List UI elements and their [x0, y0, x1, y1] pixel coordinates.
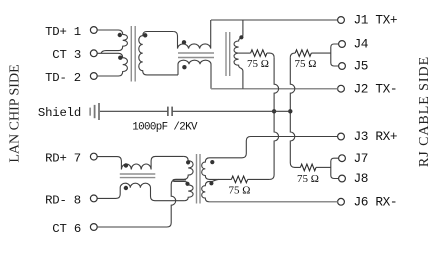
polarity dot L2 top winding — [124, 163, 128, 167]
choke L2 core line 2 — [120, 177, 156, 179]
transformer T1 secondary winding — [139, 32, 178, 75]
svg-text:J5: J5 — [354, 59, 369, 74]
polarity dot L1 bottom winding — [182, 65, 186, 69]
choke L2 bottom winding (RD- to T3) — [97, 183, 184, 201]
svg-text:RD+ 7: RD+ 7 — [45, 152, 81, 166]
svg-text:J3 RX+: J3 RX+ — [354, 129, 398, 144]
wire J1 TX+ rail — [211, 19, 338, 21]
terminal circle pin 2 (TD-) — [90, 73, 97, 80]
resistor R3 75ohm zigzag — [231, 176, 247, 183]
transformer T1 primary winding W2 (CT to TD-) — [97, 53, 127, 76]
choke L1 core line 2 — [178, 57, 214, 59]
wire R3 to vertical A — [248, 178, 270, 180]
transformer T3 primary winding W2 — [173, 181, 193, 201]
svg-text:J4: J4 — [354, 37, 369, 52]
svg-text:75 Ω: 75 Ω — [247, 58, 269, 70]
terminal circle pin 8 (RD-) — [90, 195, 97, 202]
terminal circle J1 — [338, 17, 345, 24]
transformer T3 secondary winding W2 — [202, 179, 219, 201]
wire shield rail right — [173, 110, 290, 112]
polarity dot T1 secondary — [143, 33, 147, 37]
svg-text:J8: J8 — [354, 171, 369, 186]
resistor R4 75ohm zigzag — [300, 164, 316, 171]
svg-text:RD- 8: RD- 8 — [45, 193, 81, 207]
svg-text:CT 3: CT 3 — [52, 48, 81, 62]
wire T2 center tap — [239, 52, 251, 54]
wire R1 to vertical — [267, 53, 274, 58]
junction dot vertical A on shield rail — [272, 109, 276, 113]
wire R4 to bracket — [316, 166, 331, 168]
terminal circle J5 — [339, 63, 346, 70]
terminal circle pin 1 (TD+) — [90, 27, 97, 34]
wire J4/J5 bracket — [331, 44, 339, 66]
terminal circle J6 — [338, 198, 345, 205]
transformer T1 primary winding W1 (TD+ to CT) — [97, 30, 127, 53]
terminal circle J4 — [339, 41, 346, 48]
wire J7/J8 bracket — [331, 158, 339, 178]
transformer T3 primary winding W1 — [173, 156, 193, 180]
junction dot vertical B on shield rail — [288, 109, 292, 113]
terminal circle J8 — [339, 175, 346, 182]
svg-text:RJ CABLE SIDE: RJ CABLE SIDE — [417, 56, 432, 167]
svg-text:1000pF /2KV: 1000pF /2KV — [132, 122, 198, 134]
polarity dot T1 primary W2 — [118, 56, 122, 60]
polarity dot T3 primary W1 — [186, 160, 190, 164]
capacitor C1 plate 2 — [171, 107, 173, 116]
choke L2 top winding (RD+ to T3) — [97, 156, 183, 169]
svg-text:CT 6: CT 6 — [52, 222, 81, 236]
terminal circle J7 — [339, 155, 346, 162]
terminal circle pin 6 (CT) — [90, 224, 97, 231]
autotransformer T2 core line 1 — [225, 32, 227, 76]
svg-text:J2 TX-: J2 TX- — [354, 81, 398, 96]
resistor R1 75ohm zigzag — [251, 50, 267, 57]
wire T3 center tap to CT 6 (hop over RD- line) — [97, 180, 186, 227]
svg-text:75 Ω: 75 Ω — [295, 58, 317, 70]
wire shield rail left — [100, 110, 167, 112]
shield symbol line 3 — [98, 103, 100, 120]
capacitor C1 plate 1 — [167, 107, 169, 116]
resistor R2 75ohm zigzag — [295, 50, 311, 57]
terminal circle J2 — [338, 85, 345, 92]
svg-text:J7: J7 — [354, 151, 369, 166]
autotransformer T2 winding — [234, 20, 243, 89]
transformer T1 core line 1 — [130, 26, 132, 82]
terminal circle pin 7 (RD+) — [90, 153, 97, 160]
wire termination vertical A (R1 to R3) with hops — [270, 58, 279, 180]
choke L2 core line 1 — [120, 173, 156, 175]
polarity dot T2 winding — [239, 35, 243, 39]
wire R2 to bracket — [311, 52, 331, 54]
svg-text:TD+ 1: TD+ 1 — [45, 25, 81, 39]
terminal circle pin 3 (CT) — [90, 50, 97, 57]
transformer T3 core line 2 — [199, 154, 201, 204]
terminal circle J3 — [338, 133, 345, 140]
polarity dot T3 secondary W1 — [210, 160, 214, 164]
polarity dot T3 secondary W2 — [209, 181, 213, 185]
svg-text:75 Ω: 75 Ω — [297, 173, 319, 185]
wire R2 left corner — [290, 53, 295, 58]
svg-text:J6 RX-: J6 RX- — [354, 195, 398, 210]
transformer T1 core line 2 — [134, 26, 136, 82]
transformer T3 secondary winding W1 and J3 RX+ rail — [202, 137, 338, 180]
polarity dot T3 primary W2 — [185, 182, 189, 186]
wire J2 TX- rail — [211, 88, 338, 90]
choke L1 top winding — [173, 20, 211, 49]
shield symbol tick 1 — [89, 108, 91, 116]
choke L1 bottom winding — [178, 60, 211, 89]
autotransformer T2 core line 2 — [229, 32, 231, 76]
polarity dot T1 primary W1 — [118, 33, 122, 37]
svg-text:TD- 2: TD- 2 — [45, 71, 81, 85]
svg-text:J1 TX+: J1 TX+ — [354, 13, 398, 28]
choke L1 core line 1 — [178, 52, 214, 54]
polarity dot L1 top winding — [182, 40, 186, 44]
wire J6 RX- rail — [210, 201, 338, 203]
svg-text:LAN CHIP SIDE: LAN CHIP SIDE — [8, 64, 23, 162]
wire termination vertical B (R2 to R4) with hops — [290, 58, 300, 168]
svg-text:Shield: Shield — [38, 106, 81, 120]
transformer T3 core line 1 — [196, 154, 198, 204]
shield symbol line 2 — [94, 105, 96, 118]
polarity dot L2 bottom winding — [124, 186, 128, 190]
svg-text:75 Ω: 75 Ω — [229, 185, 251, 197]
